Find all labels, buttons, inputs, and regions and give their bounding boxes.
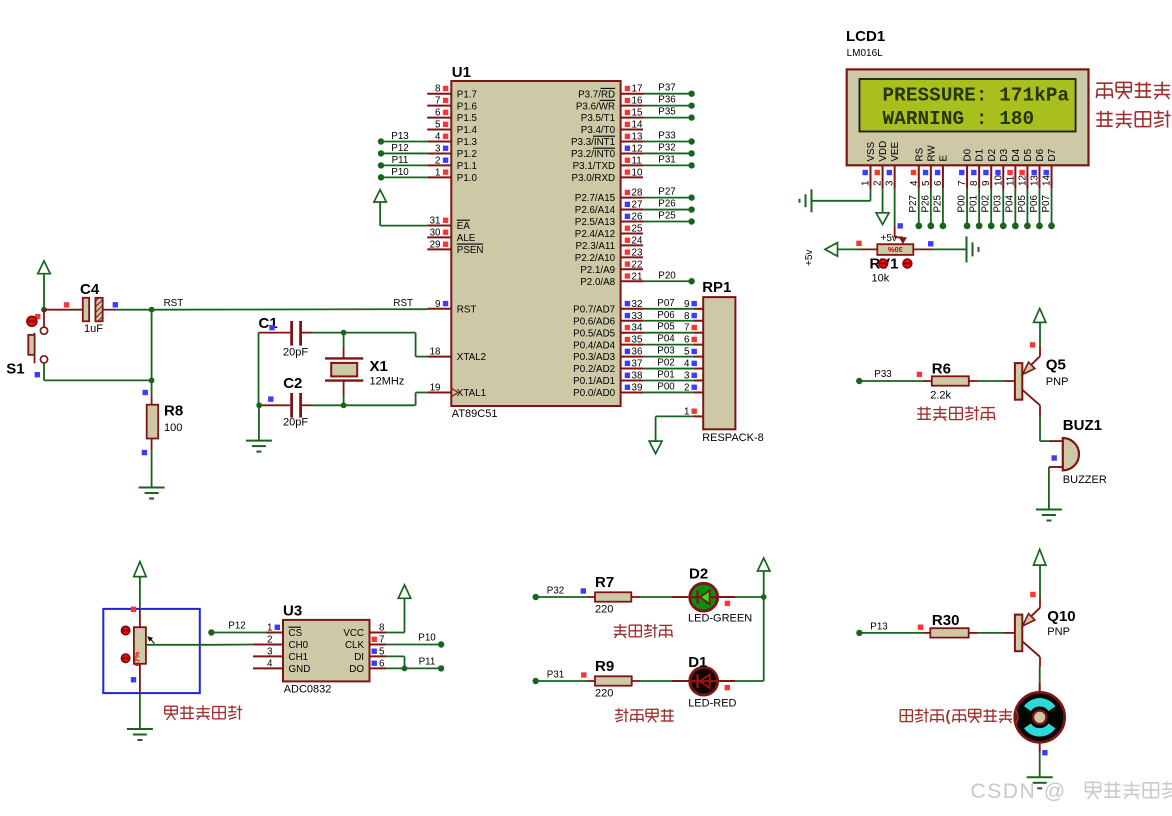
svg-text:BUZ1: BUZ1	[1063, 417, 1102, 434]
svg-text:P0.2/AD2: P0.2/AD2	[573, 364, 615, 375]
svg-text:30%: 30%	[887, 245, 902, 254]
ground under motor	[1027, 777, 1053, 788]
svg-text:D1: D1	[688, 654, 707, 671]
svg-text:P0.7/AD7: P0.7/AD7	[573, 304, 615, 315]
wire U3 DO to net P11	[386, 656, 444, 671]
wire Q5 collector to BUZ1	[1040, 417, 1049, 442]
svg-text:DO: DO	[349, 664, 364, 675]
svg-text:9: 9	[981, 181, 992, 186]
svg-text:P04: P04	[1005, 195, 1016, 213]
svg-text:ADC0832: ADC0832	[284, 684, 332, 696]
svg-text:C2: C2	[283, 375, 302, 392]
svg-text:39: 39	[632, 382, 643, 393]
svg-text:CH0: CH0	[289, 640, 309, 651]
svg-text:18: 18	[430, 347, 441, 358]
U1 right pins 17..10 (P3.7..P3.0)	[621, 84, 643, 179]
svg-text:P3.1/TXD: P3.1/TXD	[573, 161, 615, 172]
svg-text:P2.1/A9: P2.1/A9	[580, 265, 615, 276]
svg-text:P00: P00	[657, 381, 675, 392]
wire sensor bottom to ground	[139, 693, 141, 729]
svg-text:12MHz: 12MHz	[370, 376, 405, 388]
svg-text:ALE: ALE	[457, 233, 476, 244]
svg-text:R30: R30	[932, 612, 960, 629]
svg-text:6: 6	[684, 335, 690, 346]
svg-text:+5v: +5v	[804, 250, 815, 266]
resistor R8 100	[142, 397, 183, 455]
svg-text:30: 30	[430, 227, 441, 238]
svg-text:X1: X1	[370, 358, 388, 375]
label (chinese) hu-xi-fa (shi-fang-ya-li) breathing valve	[900, 709, 1019, 726]
svg-text:220: 220	[595, 688, 613, 700]
wire RST node down to R8	[143, 310, 155, 397]
svg-text:10k: 10k	[872, 273, 890, 285]
svg-text:D5: D5	[1023, 148, 1034, 161]
wire R8 to ground	[151, 450, 153, 488]
node junction at C4 left	[41, 307, 47, 313]
svg-text:RW: RW	[926, 145, 937, 162]
svg-text:P2.6/A14: P2.6/A14	[575, 205, 616, 216]
svg-text:PNP: PNP	[1046, 376, 1069, 388]
svg-text:P06: P06	[1029, 195, 1040, 213]
svg-text:R7: R7	[595, 574, 614, 591]
label (chinese) ya-li-chao-biao pressure exceeded	[615, 708, 674, 722]
svg-text:6: 6	[933, 180, 944, 186]
power terminal (up arrow) at U3 VCC	[398, 585, 410, 598]
svg-text:28: 28	[632, 188, 643, 199]
U3 left pins 1-4	[253, 623, 283, 670]
svg-text:P32: P32	[658, 142, 675, 153]
svg-text:Q5: Q5	[1046, 357, 1066, 374]
svg-text:3: 3	[684, 371, 690, 382]
svg-text:1: 1	[861, 181, 872, 186]
svg-text:3: 3	[267, 646, 273, 657]
svg-text:P2.3/A11: P2.3/A11	[576, 241, 616, 252]
svg-text:P0.0/AD0: P0.0/AD0	[573, 388, 615, 399]
ground (rotated left) at LCD VSS	[800, 189, 812, 212]
svg-text:DI: DI	[354, 652, 364, 663]
svg-text:7: 7	[435, 96, 440, 107]
ground under sensor	[127, 729, 153, 740]
svg-text:P07: P07	[1041, 195, 1052, 212]
svg-text:P2.7/A15: P2.7/A15	[575, 193, 616, 204]
wire RV1 left to +5v terminal	[838, 248, 878, 250]
svg-text:EA: EA	[457, 221, 471, 232]
svg-text:RESPACK-8: RESPACK-8	[702, 432, 764, 444]
svg-text:4: 4	[267, 658, 273, 669]
svg-text:5: 5	[435, 120, 441, 131]
svg-text:P02: P02	[657, 358, 674, 369]
resistor R7 220	[587, 574, 640, 616]
svg-text:CH1: CH1	[289, 652, 309, 663]
svg-text:P1.7: P1.7	[457, 89, 477, 100]
label (chinese) chao-biao-bao-jing-qi overrun alarm	[917, 406, 995, 421]
svg-text:4: 4	[909, 180, 920, 186]
svg-text:P0.6/AD6: P0.6/AD6	[573, 316, 615, 327]
svg-text:35: 35	[632, 335, 643, 346]
transistor Q10 PNP	[1015, 597, 1076, 667]
svg-text:U3: U3	[283, 603, 302, 620]
svg-text:P25: P25	[658, 211, 676, 222]
svg-text:P05: P05	[657, 322, 675, 333]
wire Q5 emitter to power	[1030, 322, 1040, 347]
svg-text:P03: P03	[657, 346, 675, 357]
watermark CSDN	[971, 780, 1172, 803]
svg-text:D6: D6	[1035, 148, 1046, 161]
power terminal (up arrow) at sensor	[134, 562, 146, 609]
wire Q10 collector to motor	[1039, 667, 1041, 692]
capacitor C4 1uF	[44, 281, 118, 335]
svg-text:220: 220	[595, 604, 613, 616]
svg-text:P0.3/AD3: P0.3/AD3	[573, 352, 615, 363]
svg-text:U1: U1	[452, 64, 471, 81]
U1 left pins 8..1 (P1.7..P1.0)	[427, 84, 451, 179]
svg-text:D4: D4	[1011, 148, 1022, 161]
svg-text:P07: P07	[657, 298, 674, 309]
svg-text:P13: P13	[391, 131, 409, 142]
svg-text:36: 36	[632, 347, 643, 358]
sensor potentiometer	[121, 607, 211, 694]
svg-text:16: 16	[632, 96, 643, 107]
node RST junction	[149, 307, 155, 313]
wire U3 CLK to net P10	[386, 633, 444, 648]
svg-text:P20: P20	[658, 270, 676, 281]
svg-text:P02: P02	[981, 195, 992, 212]
capacitor C1 20pF	[259, 315, 313, 359]
svg-text:37: 37	[632, 359, 643, 370]
svg-text:8: 8	[684, 311, 690, 322]
svg-text:RS: RS	[914, 147, 925, 161]
svg-text:17: 17	[632, 84, 643, 95]
wire R7 to D2	[640, 596, 672, 598]
svg-text:7: 7	[684, 323, 689, 334]
svg-text:P36: P36	[658, 95, 676, 106]
svg-text:RST: RST	[457, 304, 477, 315]
svg-text:P12: P12	[391, 143, 408, 154]
svg-text:D1: D1	[975, 149, 986, 162]
wire net P20	[643, 270, 695, 284]
ground under R8	[139, 488, 165, 499]
wire U3 DI to DO node	[386, 656, 404, 668]
svg-text:26: 26	[632, 212, 643, 223]
ground under BUZ1	[1036, 510, 1062, 521]
wire Q10 emitter to power	[1030, 565, 1040, 597]
svg-text:P1.0: P1.0	[457, 173, 478, 184]
transistor Q5 PNP	[1015, 346, 1069, 417]
power +5v terminal (left arrow)	[804, 243, 838, 266]
svg-text:P3.3/INT1: P3.3/INT1	[571, 137, 615, 148]
svg-text:10: 10	[993, 175, 1004, 186]
svg-text:P3.5/T1: P3.5/T1	[581, 113, 615, 124]
wire net P27	[643, 187, 695, 201]
svg-text:LED-GREEN: LED-GREEN	[688, 613, 752, 625]
svg-text:CS: CS	[289, 628, 303, 639]
svg-text:4: 4	[684, 359, 690, 370]
ground terminal (down arrow) below RP1	[649, 441, 662, 454]
svg-text:8: 8	[435, 84, 441, 95]
svg-text:P2.5/A13: P2.5/A13	[575, 217, 616, 228]
svg-text:P03: P03	[993, 195, 1004, 213]
svg-text:VSS: VSS	[866, 141, 877, 161]
svg-text:E: E	[939, 155, 950, 162]
svg-text:R8: R8	[164, 403, 183, 420]
op-amp U3 ADC0832 body	[283, 603, 370, 696]
power terminal (up arrow) at U1 EA	[374, 190, 427, 226]
svg-text:CLK: CLK	[345, 640, 365, 651]
svg-text:P1.6: P1.6	[457, 101, 478, 112]
svg-text:P3.4/T0: P3.4/T0	[581, 125, 616, 136]
motor/valve (breathing valve)	[1015, 683, 1065, 753]
resistor pack RP1 RESPACK-8 body	[702, 279, 764, 444]
svg-text:GND: GND	[289, 664, 311, 675]
wire net P25	[643, 211, 695, 225]
svg-text:S1: S1	[6, 361, 24, 378]
svg-text:7: 7	[379, 635, 384, 646]
wire C4 to RST node	[116, 309, 151, 311]
wire net P33	[643, 131, 695, 145]
wire C2 to X1 bottom / pin19	[312, 393, 427, 409]
wire net P35	[643, 107, 695, 121]
wire motor to ground	[1040, 750, 1048, 777]
pressure sensor box (blue)	[103, 609, 200, 693]
LCD pins 1-14 (VSS VDD VEE RS RW E D0-D7)	[861, 141, 1059, 189]
wire D2 to power node	[735, 594, 767, 600]
svg-text:2: 2	[435, 155, 440, 166]
svg-text:VCC: VCC	[343, 628, 364, 639]
wire net P32 to R7	[533, 586, 588, 601]
svg-text:14: 14	[1042, 175, 1053, 186]
svg-text:6: 6	[379, 658, 385, 669]
wire net P12 to U3 CS	[208, 621, 266, 636]
svg-text:P3.0/RXD: P3.0/RXD	[572, 173, 616, 184]
svg-text:3: 3	[885, 180, 896, 186]
wire net P37	[643, 83, 695, 97]
svg-text:P0.5/AD5: P0.5/AD5	[573, 328, 615, 339]
LCD1 body	[847, 69, 1089, 165]
svg-text:PNP: PNP	[1047, 626, 1070, 638]
power terminal (up arrow) at Q5	[1034, 309, 1046, 323]
switch S1 push button	[6, 310, 47, 378]
LED D2 LED-GREEN	[672, 566, 752, 625]
wire R9 to D1	[640, 680, 672, 682]
wire net P36	[643, 95, 695, 109]
svg-text:P1.3: P1.3	[457, 137, 478, 148]
wires LCD D0-D7 to nets P00-P07	[956, 189, 1054, 230]
svg-text:P1.1: P1.1	[457, 161, 477, 172]
svg-text:LCD1: LCD1	[846, 28, 885, 45]
svg-text:15: 15	[632, 108, 643, 119]
U1 pin 19 XTAL1	[427, 382, 451, 393]
svg-text:VDD: VDD	[878, 141, 889, 162]
label (chinese) shi-shi-ya-li real-time pressure	[1096, 81, 1170, 99]
svg-text:27: 27	[632, 200, 643, 211]
svg-text:6: 6	[435, 108, 441, 119]
svg-text:1: 1	[267, 623, 272, 634]
svg-text:2.2k: 2.2k	[930, 390, 951, 402]
svg-text:21: 21	[632, 271, 643, 282]
svg-text:RP1: RP1	[702, 279, 731, 296]
svg-text:P1.2: P1.2	[457, 149, 477, 160]
svg-text:RST: RST	[164, 298, 184, 309]
svg-text:22: 22	[632, 259, 643, 270]
wire C1 to X1 top / pin18	[312, 330, 427, 357]
node C2 left junction	[256, 402, 262, 408]
svg-text:D3: D3	[999, 148, 1010, 161]
svg-text:14: 14	[632, 120, 643, 131]
svg-text:38: 38	[632, 371, 643, 382]
svg-text:4: 4	[435, 132, 441, 143]
svg-text:P10: P10	[391, 167, 409, 178]
svg-text:P2.4/A12: P2.4/A12	[575, 229, 615, 240]
svg-text:LED-RED: LED-RED	[688, 698, 736, 710]
svg-text:P3.7/RD: P3.7/RD	[578, 89, 615, 100]
svg-text:11: 11	[632, 155, 642, 166]
svg-text:LM016L: LM016L	[847, 48, 884, 59]
svg-text:2: 2	[267, 635, 272, 646]
svg-text:D7: D7	[1047, 149, 1058, 162]
svg-text:25: 25	[632, 223, 643, 234]
label (chinese) ya-li-zheng-chang pressure normal	[614, 624, 673, 638]
wire RV1 right to ground	[913, 248, 966, 250]
wire R30 to Q10 base	[977, 632, 1016, 634]
svg-text:P05: P05	[1017, 195, 1028, 213]
op-amp U1 AT89C51 microcontroller body	[451, 64, 620, 420]
svg-text:P35: P35	[658, 107, 676, 118]
svg-text:P3.2/INT0: P3.2/INT0	[571, 149, 616, 160]
svg-text:3: 3	[435, 143, 441, 154]
svg-text:100: 100	[164, 422, 182, 434]
wire BUZ1 to ground	[1048, 467, 1050, 510]
svg-text:P10: P10	[418, 633, 436, 644]
svg-text:P32: P32	[547, 586, 564, 597]
wires LCD RS,RW,E to nets P27,P26,P25	[908, 189, 946, 230]
svg-text:5: 5	[379, 646, 385, 657]
svg-text:VEE: VEE	[890, 141, 901, 161]
svg-text:12: 12	[632, 143, 643, 154]
LCD screen with text	[860, 79, 1076, 132]
svg-text:P11: P11	[419, 656, 436, 667]
svg-text:C4: C4	[80, 281, 100, 298]
svg-text:P37: P37	[658, 83, 675, 94]
RP1 pin 1	[684, 406, 703, 417]
svg-text:P2.2/A10: P2.2/A10	[575, 253, 616, 264]
svg-text:P0.1/AD1: P0.1/AD1	[573, 376, 615, 387]
svg-text:1: 1	[435, 167, 440, 178]
svg-text:P33: P33	[874, 369, 892, 380]
buzzer BUZ1	[1049, 417, 1107, 486]
svg-text:R6: R6	[932, 361, 951, 378]
svg-text:P27: P27	[658, 187, 675, 198]
power terminal (up arrow) LEDs	[758, 558, 770, 597]
svg-text:29: 29	[430, 239, 441, 250]
wire LCD VDD to ground arrow	[882, 189, 884, 213]
svg-text:1uF: 1uF	[84, 323, 103, 335]
svg-text:D2: D2	[987, 149, 998, 162]
svg-text:P3.6/WR: P3.6/WR	[576, 101, 615, 112]
svg-text:P00: P00	[956, 195, 967, 213]
LCD1 LM016L title	[846, 28, 885, 59]
svg-text:8: 8	[379, 623, 385, 634]
svg-text:P25: P25	[932, 195, 943, 213]
svg-text:9: 9	[435, 299, 440, 310]
wire S1 bottom to R8 top node	[44, 363, 152, 380]
resistor R9 220	[587, 658, 640, 700]
svg-text:24: 24	[632, 235, 643, 246]
svg-text:33: 33	[632, 311, 643, 322]
svg-text:P26: P26	[658, 199, 676, 210]
wire C2 junction to ground	[258, 405, 260, 440]
wire net P31	[643, 154, 695, 168]
wire net P31 to R9	[533, 670, 588, 685]
wire net P32	[643, 142, 695, 156]
U1 right pins 28..21 (P2.7..P2.0)	[621, 188, 643, 283]
svg-text:P33: P33	[658, 131, 676, 142]
svg-text:P26: P26	[920, 195, 931, 213]
potentiometer RV1 10k	[856, 241, 933, 285]
wire net RST to U1 pin 9	[152, 298, 428, 310]
svg-text:R9: R9	[595, 658, 614, 675]
svg-text:2: 2	[873, 181, 884, 186]
U1 pin 9 RST	[427, 299, 451, 310]
svg-text:): )	[1015, 709, 1020, 725]
wire net P26	[643, 199, 695, 213]
wires nets P13,P12,P11,P10 to U1	[378, 131, 427, 181]
svg-text:10: 10	[632, 167, 643, 178]
RP1 pins 9..2 and wires P07..P00 from U1	[643, 298, 703, 394]
svg-text:P01: P01	[969, 195, 980, 212]
resistor R6 2.2k	[923, 361, 977, 402]
wire net P13 to R30	[856, 622, 923, 637]
label (chinese) bao-jing-yu-zhi alarm threshold	[1096, 110, 1170, 128]
wire net P33 to R6	[856, 369, 923, 384]
svg-text:P01: P01	[657, 370, 674, 381]
svg-text:19: 19	[430, 382, 441, 393]
svg-text:P31: P31	[658, 154, 675, 165]
svg-text:D2: D2	[689, 566, 708, 583]
svg-text:P13: P13	[870, 622, 888, 633]
svg-text:13: 13	[1029, 175, 1040, 186]
svg-text:13: 13	[632, 132, 643, 143]
svg-text:P0.4/AD4: P0.4/AD4	[573, 340, 615, 351]
svg-text:PSEN: PSEN	[457, 245, 484, 256]
wire left vertical C1-C2	[258, 333, 260, 406]
svg-text:9: 9	[684, 299, 689, 310]
svg-text:31: 31	[430, 216, 441, 227]
svg-text:7: 7	[957, 181, 968, 186]
ground terminal (down arrow) at LCD VDD	[876, 213, 889, 225]
LED D1 LED-RED	[672, 654, 737, 710]
svg-text:20pF: 20pF	[283, 347, 308, 359]
svg-text:XTAL2: XTAL2	[457, 352, 486, 363]
wire LED power node down to D1	[735, 597, 764, 681]
power terminal (up arrow) top-left	[38, 261, 50, 310]
svg-text:P1.5: P1.5	[457, 113, 478, 124]
svg-text:(: (	[946, 709, 951, 725]
U1 pins 31,30,29 (EA,ALE,PSEN)	[427, 216, 451, 251]
svg-text:P12: P12	[228, 621, 245, 632]
svg-text:P06: P06	[657, 310, 675, 321]
svg-text:5: 5	[921, 180, 932, 186]
resistor R30	[923, 612, 977, 638]
svg-text:P31: P31	[547, 670, 564, 681]
svg-text:5: 5	[684, 347, 690, 358]
ground (rotated right) at RV1	[967, 236, 979, 262]
crystal X1 12MHz	[325, 333, 404, 406]
svg-text:CSDN @: CSDN @	[971, 780, 1067, 803]
U3 right pins 8,7,5,6	[370, 623, 387, 670]
svg-text:XTAL1: XTAL1	[457, 388, 486, 399]
capacitor C2 20pF	[259, 375, 312, 429]
svg-text:P11: P11	[392, 155, 409, 166]
